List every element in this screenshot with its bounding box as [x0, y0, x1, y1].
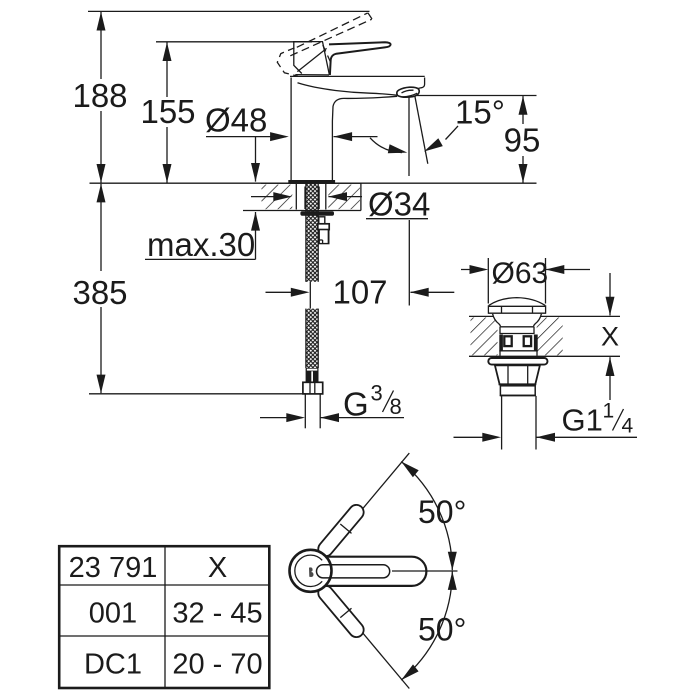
dim line 95: [522, 96, 524, 124]
centerline: [392, 570, 458, 572]
svg-text:32 - 45: 32 - 45: [172, 598, 262, 630]
O34 left arrow: [251, 196, 289, 198]
label G1 1/4: [562, 400, 634, 438]
15deg leader line: [446, 126, 459, 140]
G1 1/4 dim left arrow: [454, 436, 499, 438]
15deg arc with arrow: [370, 138, 402, 153]
svg-text:23 791: 23 791: [69, 552, 158, 584]
svg-text:385: 385: [72, 274, 127, 311]
dim line 385: [100, 184, 102, 271]
drain neck flare: [493, 314, 501, 327]
DIMS-LEFT: [72, 11, 540, 422]
counter hatch left part: [471, 318, 498, 356]
X dim bottom arrow: [609, 357, 611, 400]
svg-text:50°: 50°: [418, 612, 466, 648]
hose centerline in gap: [309, 282, 311, 309]
O63 dim right arrow: [546, 269, 590, 271]
svg-text:8: 8: [390, 394, 402, 419]
svg-text:X: X: [208, 552, 227, 584]
svg-text:95: 95: [504, 122, 541, 159]
faucet base plate: [288, 180, 335, 184]
drain tail pipe: [501, 396, 503, 450]
body side edges below slots: [499, 351, 501, 356]
lever raised tip cap: [368, 13, 372, 19]
svg-text:50°: 50°: [418, 494, 466, 530]
lever rotated lower (pill): [315, 583, 366, 640]
shank through counter: [296, 184, 326, 210]
table column divider: [164, 546, 166, 688]
lever rotated upper (pill): [315, 502, 366, 559]
plug body white mask: [489, 306, 546, 335]
lever raised pivot outline (dashed): [277, 48, 298, 76]
G3/8 hex nut: [303, 382, 323, 394]
svg-text:155: 155: [140, 93, 195, 130]
dim line 188: [100, 12, 102, 79]
spout inner top curve: [298, 83, 398, 96]
counter bottom line: [243, 210, 361, 212]
aerator inner line: [402, 90, 414, 93]
G38 dim line right with arrow: [320, 417, 404, 419]
ref line 95 (spout outlet): [417, 95, 537, 97]
washer below counter: [488, 358, 547, 365]
overflow slot left: [504, 336, 511, 346]
lever raised (dashed) lower edge: [290, 19, 371, 56]
spout right edge and step: [418, 78, 425, 89]
svg-text:001: 001: [89, 598, 137, 630]
svg-text:max.30: max.30: [147, 226, 255, 263]
15deg leader arrowhead: [424, 138, 443, 151]
plug cap dome: [489, 298, 545, 306]
overflow slot right: [524, 336, 531, 346]
connection pipe: [305, 394, 320, 428]
counter hatch left: [262, 185, 293, 210]
O48 leader left with arrow: [206, 136, 286, 138]
spout underside and inner corner: [332, 96, 397, 180]
nut collar: [500, 386, 535, 396]
counter bottom line (right section): [469, 355, 620, 357]
svg-text:4: 4: [622, 415, 634, 438]
O34 right arrow: [328, 196, 362, 198]
water stream vertical line: [408, 98, 410, 177]
svg-text:G1: G1: [562, 403, 603, 438]
svg-text:Ø48: Ø48: [205, 102, 267, 139]
lever top-view outer outline: [300, 557, 426, 586]
ref line top (188): [88, 10, 370, 12]
handle neck: [293, 42, 329, 76]
lever top-view inner outline: [317, 565, 390, 578]
plug cap chord line: [489, 305, 546, 307]
table row divider 1: [59, 584, 269, 586]
svg-text:107: 107: [332, 274, 387, 311]
lock nut hexagon: [495, 365, 540, 384]
ref line bottom (385): [89, 393, 305, 395]
counter top line: [90, 182, 537, 184]
svg-text:X: X: [601, 322, 619, 352]
DRAIN: [454, 257, 638, 450]
svg-text:3: 3: [371, 381, 383, 406]
lever raised (dashed) upper edge: [297, 13, 368, 47]
svg-text:15°: 15°: [455, 94, 505, 131]
logo mark in circle: [309, 567, 314, 577]
svg-text:1: 1: [603, 400, 615, 423]
hose crimp fitting: [306, 368, 319, 382]
counter hatch right: [328, 185, 360, 210]
svg-text:DC1: DC1: [84, 649, 142, 681]
table row divider 2: [59, 635, 269, 637]
max30 upper arrow (down): [255, 137, 257, 182]
counter hatch right part: [537, 318, 563, 356]
faucet body circle (top view): [290, 550, 332, 592]
inner circle arc: [295, 555, 322, 586]
svg-text:Ø63: Ø63: [492, 257, 549, 290]
O63 dim left arrow: [461, 269, 485, 271]
dim 107 right line with arrow: [411, 291, 455, 293]
svg-text:G: G: [343, 386, 369, 423]
G1 1/4 dim right arrow: [536, 436, 637, 438]
hose braid lower segment: [306, 309, 318, 368]
X dim top arrow: [609, 273, 611, 315]
ref line 155: [156, 41, 312, 43]
lever raised inner dash: [323, 45, 331, 64]
aerator outline: [397, 87, 419, 97]
hose braid upper segment: [306, 184, 318, 282]
drain collar lines: [500, 326, 533, 328]
faucet body top edge: [290, 75, 425, 77]
water stream 15deg line: [415, 96, 428, 164]
table outer border: [59, 546, 269, 688]
construction line lower 50deg: [325, 588, 410, 689]
aerator bottom thick stroke: [403, 93, 418, 97]
arc upper 50deg: [401, 462, 452, 571]
plug cap skirt: [488, 305, 546, 313]
svg-text:20 - 70: 20 - 70: [172, 649, 262, 681]
G38 dim line left with arrow: [260, 417, 302, 419]
max30 lower arrow (up): [255, 212, 257, 259]
pop-up rod: [318, 217, 329, 244]
arc lower 50deg: [401, 571, 452, 680]
O63 extension lines: [487, 258, 489, 304]
svg-text:Ø34: Ø34: [368, 186, 430, 223]
TOPVIEW: [290, 453, 467, 688]
slotted body bottom line: [499, 350, 537, 352]
O34 drop line: [408, 220, 410, 306]
svg-text:188: 188: [72, 77, 127, 114]
label G 3/8: [343, 381, 402, 423]
dim 107 left line with arrow: [266, 291, 307, 293]
washer under counter: [300, 211, 334, 215]
dim line 155: [166, 42, 168, 97]
construction line upper 50deg: [325, 453, 410, 554]
counter top cut edge (thick): [261, 182, 361, 184]
O34 underline shelf: [366, 218, 428, 220]
max30 underline shelf: [145, 258, 256, 260]
counter top line (right section): [469, 315, 620, 317]
drain slotted body walls: [499, 335, 503, 351]
SIDE-VIEW: [90, 13, 537, 429]
O48 right arrow: [334, 136, 378, 138]
counter step edge: [360, 183, 362, 210]
faucet body left edge: [290, 78, 292, 181]
lever (solid, horizontal): [329, 42, 391, 75]
TABLE: [59, 546, 269, 688]
